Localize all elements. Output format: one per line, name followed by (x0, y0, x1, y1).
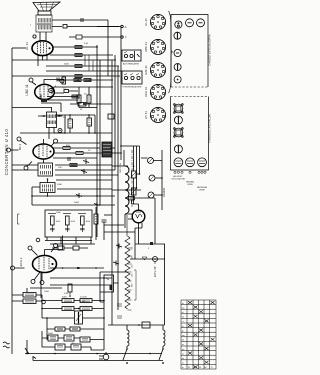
resistor Rc (62, 299, 74, 303)
wire y170 (12, 169, 115, 171)
trimmer cap TC2 (81, 169, 87, 174)
svg-text:fo: fo (182, 367, 184, 369)
wire choke connections (127, 325, 163, 349)
wire x165 (164, 244, 166, 325)
mains wire y325 (108, 324, 165, 326)
RC group 2 (63, 214, 76, 233)
padder P1 (174, 158, 183, 167)
wire y153 (53, 152, 112, 154)
resistor Rh (70, 327, 80, 331)
wires V2 cluster (41, 91, 78, 100)
resistor R14 (84, 79, 91, 82)
bus riser left (25, 340, 36, 361)
wire y225 right (104, 224, 124, 226)
resistor R17 (70, 164, 77, 167)
wire y115 (55, 114, 95, 116)
trimmer circle A1 (175, 21, 182, 28)
switch S1 dots (126, 349, 128, 363)
svg-text:1000: 1000 (57, 184, 63, 186)
resistor Rf (80, 307, 92, 311)
trimmer circle A4 (174, 32, 181, 39)
dashed chassis box B (171, 96, 209, 98)
vertical bus x118 (117, 66, 119, 310)
test point V2 (49, 86, 56, 93)
vertical bus x112 (111, 60, 113, 325)
resistor R10 (78, 103, 86, 107)
svg-text:75: 75 (211, 367, 213, 369)
svg-text:1000: 1000 (44, 291, 50, 293)
cap row box 4 (55, 344, 65, 350)
vertical bus x124 (123, 150, 125, 166)
table bottom labels (188, 367, 213, 369)
wire y104 (70, 103, 112, 105)
circled point AVC (36, 238, 40, 242)
junction dots bottom (27, 353, 150, 355)
svg-text:MEDIAN: MEDIAN (186, 180, 194, 183)
wire y143b riser (110, 147, 115, 149)
wire tube V1 pins (38, 32, 47, 66)
svg-text:am: am (182, 335, 185, 337)
svg-text:UL 41: UL 41 (144, 18, 148, 26)
wire y196 (32, 195, 115, 197)
wire under AVC box (45, 237, 95, 244)
left bus wire (11, 48, 13, 354)
svg-text:CHASSIS VISTO DA SOPRA: CHASSIS VISTO DA SOPRA (209, 34, 212, 66)
wire y318 (42, 317, 104, 319)
capacitor on antenna line (81, 18, 83, 22)
wire y329 (47, 328, 104, 330)
wire T3 down (49, 128, 65, 140)
trimmer circle A7 (174, 76, 181, 83)
dial lamp (153, 257, 158, 265)
svg-text:1000: 1000 (80, 301, 86, 303)
wire y60 (12, 59, 116, 61)
IF transformer T4 (40, 178, 55, 192)
cap pair above V2 (57, 78, 59, 82)
circled pin 4 (54, 139, 58, 143)
svg-text:ONDE: ONDE (199, 189, 205, 191)
trimmer TC4 (94, 202, 100, 207)
wire V2 top (32, 80, 64, 86)
wire y188 (57, 188, 112, 190)
voltage table (181, 300, 216, 369)
resistor R4 (75, 75, 82, 78)
padder comp 1 (131, 171, 138, 178)
terminal A2 (121, 36, 123, 38)
wire antenna terminal A1 (63, 25, 67, 29)
winding top connect (126, 214, 128, 236)
svg-text:ANTENNA: ANTENNA (197, 186, 207, 189)
cap row box 1 (48, 335, 58, 341)
trimmer cap TC1 (83, 159, 89, 164)
brace (169, 11, 173, 93)
wire y66 (46, 65, 119, 67)
wire V5 heater (128, 214, 132, 219)
tube base B3 (150, 62, 165, 77)
trimmer circle C4 (174, 145, 182, 153)
capacitor C2 (76, 35, 82, 39)
bracket label left (18, 214, 20, 224)
wires V3 feed (65, 115, 95, 133)
rectifier tube V5 (132, 210, 145, 223)
trimmer on bus 2 (113, 261, 119, 266)
trimmer TC3 (76, 193, 82, 198)
svg-text:UL 41: UL 41 (25, 42, 29, 50)
bottom bus 1 (25, 353, 162, 355)
vertical bus x108 (107, 20, 109, 76)
trimmer circle A3 (197, 19, 205, 27)
test point T3 (58, 129, 62, 133)
RC group 1 (48, 214, 61, 233)
switch S2 dots (162, 349, 164, 363)
tube base B4 (150, 84, 165, 99)
svg-text:oc: oc (182, 303, 184, 305)
circled pin 2 (7, 148, 11, 152)
svg-text:UCH 41: UCH 41 (144, 87, 148, 97)
wire y107 (12, 107, 52, 109)
wires bottom cluster (42, 331, 104, 350)
mains plug (99, 352, 109, 360)
cap row box 2 (64, 335, 74, 341)
svg-text:64: 64 (205, 367, 207, 369)
circled point osc (42, 300, 46, 304)
output transformer T2 (36, 15, 52, 32)
osc verticals (134, 150, 163, 210)
terminal A1 (121, 25, 123, 27)
test point M1 (29, 78, 33, 82)
wire K1 area (100, 272, 119, 302)
wire y272 (100, 271, 128, 273)
record player box 2 (122, 71, 142, 84)
switch S2 (159, 349, 163, 364)
left bus top hook (12, 47, 26, 49)
padder P3 (198, 158, 207, 167)
vertical resistor R15 (77, 95, 81, 103)
speaker LS (33, 2, 60, 15)
fuse F1 (142, 322, 150, 328)
svg-text:RADDR.: RADDR. (162, 187, 166, 197)
trimmer circle C1 (174, 104, 184, 114)
wires V4 (15, 247, 63, 298)
test point M2 (60, 79, 64, 83)
choke L2 (127, 330, 129, 346)
svg-text:FONORIVELATORE: FONORIVELATORE (123, 86, 143, 89)
trimmer arrows T3 (41, 115, 62, 117)
wire osc feeds (112, 146, 140, 153)
svg-text:900 0,8 A: 900 0,8 A (119, 163, 122, 173)
resistor R12 vertical (87, 118, 92, 126)
circled pin a (28, 246, 32, 250)
wire y159 (12, 159, 112, 165)
circled pin d (40, 281, 44, 285)
cap ticks on bus (117, 304, 122, 318)
mid vertical bus x97 (96, 45, 98, 237)
svg-text:A: A (125, 25, 127, 29)
wire y148 (53, 147, 100, 149)
coil hatched L1 (102, 142, 112, 157)
winding taps (128, 248, 132, 310)
wires R15 R16 (79, 87, 97, 108)
wire V5 top (132, 198, 156, 244)
svg-text:53: 53 (199, 367, 201, 369)
svg-text:cc: cc (182, 363, 184, 365)
svg-text:UY 41: UY 41 (144, 111, 148, 119)
mid vertical bus x100 (99, 60, 101, 205)
IF transformer T3 (47, 112, 57, 128)
trimmer circle A2 (186, 19, 194, 27)
cluster outline wire (27, 288, 104, 350)
wire T4 left (32, 187, 40, 205)
cap right of box (102, 220, 107, 222)
vertical resistor R16 (87, 95, 91, 103)
trimmer circle C2 (174, 116, 182, 124)
wire to terminal A2 (69, 36, 121, 38)
wire y278 (50, 277, 112, 279)
blob y268 (77, 267, 80, 269)
svg-text:TRIMMERS LATO SALDAT.: TRIMMERS LATO SALDAT. (209, 113, 212, 143)
gang link dash-dot (131, 150, 133, 207)
capacitor C6 (68, 157, 70, 161)
wire anode bus y47 (53, 46, 97, 48)
resistor R11 vertical (68, 119, 73, 128)
wire V5 cathode down (138, 223, 140, 244)
osc resistor Rb (23, 299, 36, 304)
wire y190 right (112, 189, 141, 191)
padder labels (171, 175, 207, 192)
wire y71 (46, 70, 122, 72)
junction dots cluster (42, 301, 104, 325)
resistor R1 (75, 46, 82, 49)
wire y103 (41, 103, 61, 112)
wire y205 (32, 204, 115, 206)
junction dot fuse (138, 324, 140, 326)
grid cap terminal (33, 35, 36, 38)
AVC network box (45, 210, 92, 237)
circled pin 1 (17, 137, 21, 141)
svg-text:ONDE: ONDE (187, 184, 193, 186)
padder P2 (186, 158, 195, 167)
osc junction dots (134, 166, 163, 195)
resistor R9 (76, 152, 83, 155)
resistor R7 (72, 95, 79, 98)
tube base B5 (150, 107, 165, 122)
wire y180 (56, 179, 112, 181)
component X1 (150, 242, 153, 245)
junction dots y133 (65, 115, 95, 133)
choke L3 (163, 330, 165, 346)
vertical drops top (85, 55, 93, 71)
wire y308 (42, 308, 104, 310)
vertical resistor above V2 (62, 77, 66, 84)
circled pin b (11, 266, 15, 270)
svg-text:mc: mc (182, 349, 185, 351)
circled pin 3 (24, 166, 28, 170)
wire y215 right (104, 214, 112, 216)
switch S1 (123, 349, 127, 364)
oscillator coil scallops (125, 166, 129, 214)
wire y259 (130, 258, 165, 260)
resistor R8 (63, 147, 70, 150)
resistor Rg (55, 327, 65, 331)
tube V2 UBC41 (35, 84, 55, 99)
wire y133 (20, 132, 112, 134)
svg-text:5000: 5000 (62, 297, 68, 299)
svg-text:5000: 5000 (48, 333, 54, 335)
table first column row labels (182, 303, 185, 369)
record player box 1 (122, 50, 141, 61)
svg-text:oc: oc (182, 344, 184, 346)
svg-text:5000: 5000 (64, 64, 70, 66)
svg-text:UBC 41: UBC 41 (25, 84, 29, 95)
trimmer circle T2 (149, 175, 155, 181)
resistor R V5 (129, 197, 135, 200)
wire y80 (57, 79, 113, 81)
svg-text:OSCILLATORE: OSCILLATORE (171, 177, 185, 180)
wire y268 (50, 267, 104, 269)
osc resistor Ra (23, 293, 36, 298)
svg-text:ECH 2: ECH 2 (19, 257, 23, 266)
wire y55 (50, 54, 113, 56)
junction dots y268 (63, 268, 105, 278)
cap on y259 (142, 257, 147, 260)
svg-text:cc: cc (182, 321, 184, 323)
wire y232 right (104, 231, 135, 233)
resistor Re (62, 307, 74, 311)
wire y143 (53, 142, 100, 144)
cap row box 3 (80, 337, 90, 342)
vertical resistor right of box (94, 214, 98, 224)
IF transformer T3b (38, 163, 53, 176)
trimmer on bus (116, 244, 122, 249)
svg-text:fo: fo (182, 326, 184, 328)
svg-text:42: 42 (194, 367, 196, 369)
trimmer circle A5 (174, 49, 181, 56)
wire y300 (42, 300, 104, 302)
resistor R13 (74, 79, 81, 82)
RC group 3 (78, 214, 91, 233)
transformer winding zigzag (125, 236, 130, 309)
junction dots (78, 47, 97, 80)
tube V4 UCH41 (33, 256, 57, 273)
wire T2 secondary to right bus (52, 20, 119, 27)
circled pin c (31, 280, 35, 284)
component small box (108, 114, 114, 119)
wire y244 (135, 243, 165, 245)
wire speaker to transformer (42, 14, 47, 17)
vertical bus x115 (114, 55, 116, 170)
wire osc left (12, 295, 42, 301)
wire y175 (55, 174, 118, 176)
circled pin f (54, 244, 58, 248)
wire V4 top right (45, 236, 63, 250)
junction dots mid (12, 107, 163, 357)
svg-text:T: T (125, 36, 127, 40)
tube V3 UBF80 (33, 144, 54, 159)
svg-text:31: 31 (188, 367, 190, 369)
wire T4 down (47, 193, 49, 197)
svg-text:BF 2: BF 2 (18, 144, 22, 151)
small box u1 (58, 246, 64, 250)
resistor R6 (63, 88, 69, 93)
small vert box V4 area (68, 284, 72, 296)
wire x135 (135, 223, 142, 259)
resistor Rd (80, 299, 92, 303)
tube base B2 (150, 39, 165, 54)
table X marks (188, 301, 215, 368)
tube V1 UL41 (32, 41, 53, 56)
box component K1 (104, 275, 114, 292)
vertical bus x121 (120, 27, 122, 160)
resistor blob R5 (41, 99, 47, 103)
svg-text:1000: 1000 (56, 212, 62, 214)
svg-text:mc: mc (182, 307, 185, 309)
svg-text:UBC 41: UBC 41 (144, 42, 148, 52)
tube base B1 (150, 14, 165, 29)
dashed chassis box A (171, 15, 208, 88)
cap row box 5 (71, 344, 81, 350)
volume pot P1 (75, 311, 83, 324)
tap labels (132, 246, 134, 287)
junction dots y196 (32, 195, 97, 197)
osc horizontals (112, 158, 162, 228)
svg-text:5000: 5000 (74, 202, 80, 204)
wire left drop (46, 318, 48, 340)
padder pins (174, 171, 206, 173)
trimmer circle A6 (174, 64, 181, 71)
resistor R3 (75, 65, 82, 68)
wire y87 (54, 86, 114, 88)
trimmer circle T1 (148, 158, 154, 164)
wire y158 (53, 157, 97, 159)
padder comp 2 (131, 188, 138, 195)
resistor R2 (75, 54, 82, 57)
svg-text:AGGIUST.: AGGIUST. (173, 175, 183, 178)
tap bracket (134, 270, 136, 300)
trimmer circle T3 (148, 192, 154, 198)
wire u boxes (52, 247, 88, 249)
wire y76 (12, 75, 120, 77)
bottom bus 2 (33, 360, 163, 362)
small box u2 (73, 246, 79, 250)
svg-text:10 000: 10 000 (80, 297, 87, 299)
wire V3 top (11, 139, 55, 167)
corner squiggle label (3, 342, 10, 348)
svg-text:UAF 41: UAF 41 (144, 65, 148, 75)
trimmer circle C3 (174, 128, 184, 138)
wires right of box (96, 207, 104, 240)
svg-text:ALTOPARLANTE: ALTOPARLANTE (123, 63, 140, 66)
wire y285 (50, 284, 112, 286)
